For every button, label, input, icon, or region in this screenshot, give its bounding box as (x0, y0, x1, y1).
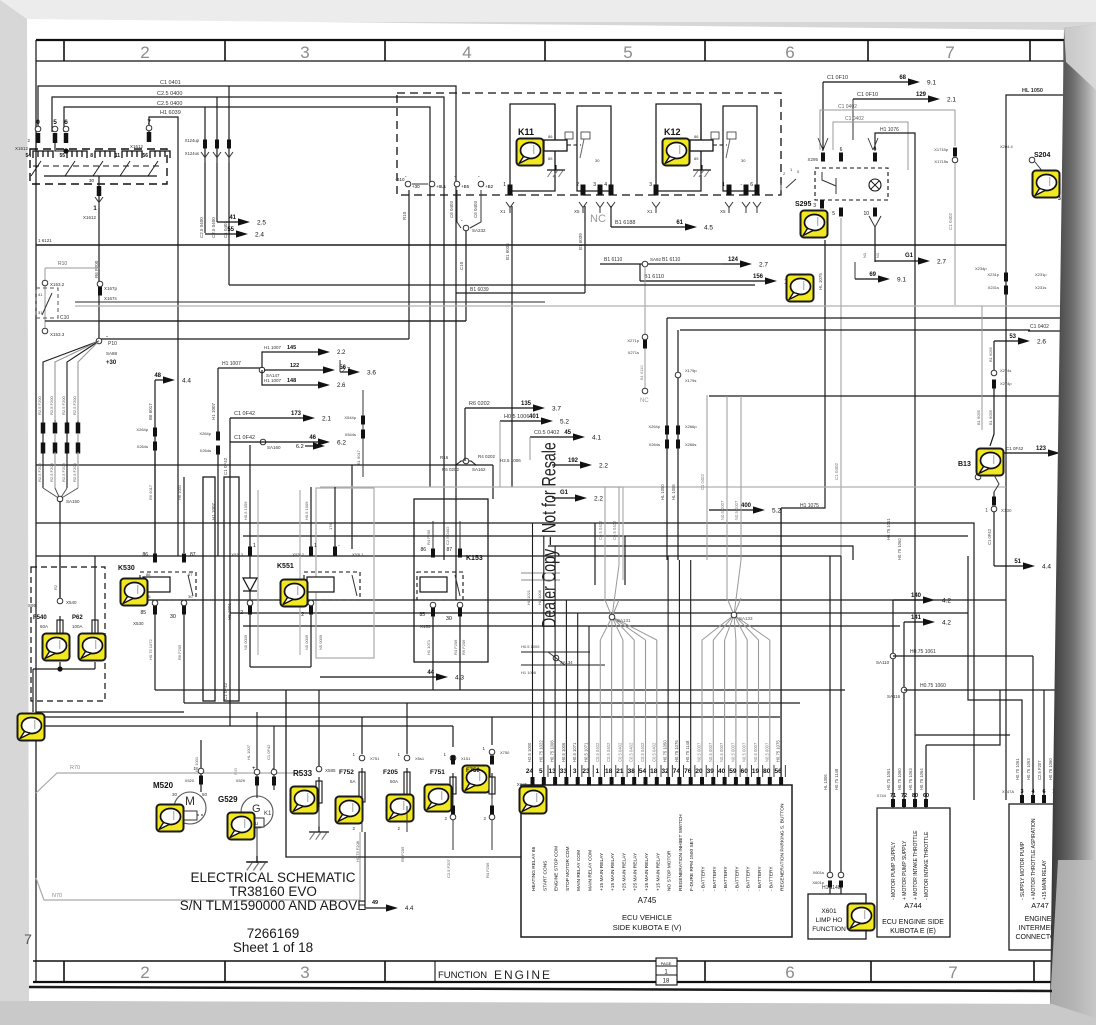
callout K551 (281, 580, 308, 607)
svg-text:2.1: 2.1 (947, 97, 956, 104)
svg-text:X153.3: X153.3 (50, 332, 65, 337)
svg-text:X750: X750 (500, 750, 510, 755)
arrow 51 to 4.4 (994, 565, 1024, 567)
arrow G1 to 2.2 (552, 497, 576, 499)
arrow 53 to 2.6 (994, 340, 1019, 342)
svg-text:X274p: X274p (1000, 381, 1012, 386)
wire C10 to SA232 (100, 320, 466, 322)
wire B13 down (994, 475, 999, 492)
wires K153 top (432, 521, 434, 549)
diode (249, 556, 251, 578)
svg-text:C1 0402: C1 0402 (834, 462, 839, 480)
svg-text:41: 41 (38, 292, 43, 297)
ground G529 (256, 828, 258, 863)
wire C1 0402 gray b (833, 122, 908, 170)
svg-text:C2.5 F207: C2.5 F207 (1037, 760, 1042, 780)
svg-text:N0.5 0007: N0.5 0007 (753, 742, 758, 762)
callout left edge (18, 714, 45, 741)
svg-text:4.1: 4.1 (592, 435, 601, 442)
svg-text:R6 F200: R6 F200 (94, 260, 99, 278)
svg-text:+8L1: +8L1 (436, 184, 447, 189)
svg-text:R2.5 F200: R2.5 F200 (61, 463, 66, 482)
svg-text:R533: R533 (293, 769, 313, 778)
wire bus y690 (155, 689, 845, 691)
connector comb 55 (67, 151, 87, 158)
wire X1612 down (98, 176, 100, 341)
svg-text:C2.5 0400: C2.5 0400 (211, 217, 216, 238)
svg-text:R5 6017: R5 6017 (148, 484, 153, 500)
wire B1 6110 upper (600, 263, 722, 265)
svg-text:H0.5 1006: H0.5 1006 (504, 414, 529, 420)
connector comb 8 (95, 151, 115, 158)
relay K11 contact (580, 139, 584, 158)
svg-text:122: 122 (290, 363, 299, 369)
callout F751 (425, 785, 452, 812)
svg-text:K11: K11 (518, 127, 534, 137)
svg-text:X540: X540 (66, 600, 77, 605)
svg-text:X529: X529 (236, 778, 246, 783)
svg-text:3: 3 (1058, 196, 1061, 202)
svg-text:0: 0 (36, 119, 40, 126)
svg-text:MAIN RELAY COM: MAIN RELAY COM (588, 850, 594, 891)
svg-text:H0.75 1006: H0.75 1006 (550, 740, 555, 762)
svg-text:X1612: X1612 (15, 146, 29, 151)
svg-text:1: 1 (985, 508, 988, 514)
wire H6 1001 to M520 (200, 740, 202, 792)
svg-text:86: 86 (146, 572, 151, 577)
svg-text:+15 MAIN RELAY: +15 MAIN RELAY (655, 852, 661, 891)
svg-text:R2.5 F200: R2.5 F200 (49, 396, 54, 415)
svg-text:FUNCTION: FUNCTION (812, 926, 846, 933)
svg-text:X747A: X747A (1002, 789, 1014, 794)
svg-text:33: 33 (560, 768, 568, 775)
svg-text:48: 48 (154, 373, 161, 379)
svg-text:X231p: X231p (987, 272, 999, 277)
svg-text:30: 30 (170, 614, 176, 620)
wire X540 (59, 556, 61, 598)
pin X1612-1 (97, 186, 102, 196)
splice SA110 (890, 653, 896, 659)
svg-text:31: 31 (38, 310, 43, 315)
svg-text:100A: 100A (72, 624, 83, 629)
svg-text:SA92: SA92 (650, 257, 662, 262)
svg-text:B1 6055: B1 6055 (976, 409, 981, 425)
svg-text:ENGINE STOP COM: ENGINE STOP COM (554, 846, 560, 891)
svg-text:R16: R16 (440, 455, 449, 460)
svg-text:ECU VEHICLE: ECU VEHICLE (622, 913, 672, 922)
wire H1 1007 drop (217, 368, 219, 432)
wire drop C1 0401 c (228, 86, 230, 285)
svg-text:N5 0009: N5 0009 (243, 634, 248, 650)
svg-text:H0.75 1063: H0.75 1063 (908, 768, 913, 790)
ECU A745 box (521, 785, 792, 937)
svg-text:18: 18 (650, 768, 658, 775)
wire bus y613 (230, 612, 968, 614)
svg-text:30: 30 (446, 616, 452, 622)
wire C1 0402 gray mid (706, 395, 708, 560)
svg-text:5.2: 5.2 (560, 419, 569, 426)
svg-text:X530: X530 (133, 621, 144, 626)
tall box left pair (203, 477, 215, 701)
svg-text:N5 0009: N5 0009 (304, 634, 309, 650)
svg-text:C2.5 F207: C2.5 F207 (446, 859, 451, 878)
svg-text:X204.4: X204.4 (1000, 144, 1013, 149)
ground R533 (318, 807, 320, 832)
svg-text:B1 6055: B1 6055 (988, 409, 993, 425)
svg-text:X295: X295 (807, 157, 818, 162)
function title (434, 961, 436, 982)
wire SA88 feed (99, 338, 409, 340)
svg-text:129: 129 (916, 92, 927, 98)
svg-text:6: 6 (840, 147, 843, 153)
svg-text:H0.75 1061: H0.75 1061 (886, 768, 891, 790)
svg-text:R2.5 F200: R2.5 F200 (61, 396, 66, 415)
svg-text:REGENERATION INHIBIT SWITCH: REGENERATION INHIBIT SWITCH (678, 814, 684, 891)
svg-text:18: 18 (663, 979, 670, 985)
svg-text:NC: NC (640, 398, 649, 404)
svg-text:30: 30 (89, 178, 95, 183)
svg-text:X231s: X231s (988, 285, 999, 290)
column ticks bottom (63, 961, 65, 982)
splice fan SA133 (702, 560, 770, 640)
connector comb 54 (33, 151, 53, 158)
svg-text:X179s: X179s (685, 378, 696, 383)
relay K12 frame (656, 104, 701, 191)
svg-text:23: 23 (582, 768, 590, 775)
wire B1 6055 (993, 341, 995, 370)
svg-text:HL 1006: HL 1006 (671, 484, 676, 500)
svg-text:R6 F206: R6 F206 (461, 639, 466, 655)
svg-text:39: 39 (707, 768, 715, 775)
wire gray B1 6055 (981, 306, 983, 430)
wires A744 (892, 600, 894, 799)
svg-text:H0.75 1061: H0.75 1061 (1015, 758, 1020, 780)
splice SA232 (463, 225, 469, 231)
svg-text:C1 0402: C1 0402 (700, 473, 705, 490)
svg-text:X124up: X124up (185, 138, 200, 143)
column ticks top (63, 40, 65, 61)
wire left drop (32, 669, 34, 712)
svg-text:C10: C10 (459, 261, 464, 270)
svg-text:X264p: X264p (648, 424, 660, 429)
wires HL1050 HL1006 drop (666, 318, 668, 560)
svg-text:X5s1: X5s1 (415, 756, 425, 761)
svg-text:R4 F206: R4 F206 (453, 639, 458, 655)
bottom scan shadow (0, 1001, 1096, 1025)
frame right border (1063, 40, 1065, 982)
arrow 400 to 5.2 (709, 509, 754, 511)
callout A745 (520, 787, 547, 814)
arrow 56 to 3.6 (340, 371, 349, 373)
svg-text:2: 2 (140, 963, 149, 982)
svg-text:R2.5 F200: R2.5 F200 (72, 396, 77, 415)
svg-text:HL 1006: HL 1006 (823, 774, 828, 790)
svg-text:R4 F206: R4 F206 (485, 862, 490, 878)
svg-text:H5 1001: H5 1001 (227, 602, 232, 620)
svg-text:400: 400 (741, 503, 752, 509)
svg-text:- BATTERY: - BATTERY (757, 866, 763, 891)
svg-text:B1 6188: B1 6188 (615, 220, 636, 226)
wire bus y556 (36, 555, 841, 557)
pins K551 bottom (248, 606, 252, 615)
splice SA147 arrows (218, 367, 262, 369)
svg-text:ENGINE: ENGINE (494, 968, 552, 982)
svg-text:-B10: -B10 (395, 177, 405, 182)
svg-text:X153.2: X153.2 (50, 282, 65, 287)
wire drop C2.5 0400 a (204, 107, 206, 233)
connector block dashed box (30, 149, 167, 184)
wire HL 1075 long (781, 240, 825, 508)
svg-text:C1 0F42: C1 0F42 (266, 744, 271, 760)
svg-text:2.1: 2.1 (322, 416, 331, 423)
svg-text:6: 6 (64, 119, 68, 126)
wire F750 down (491, 794, 493, 850)
svg-text:1: 1 (314, 543, 317, 549)
wire bus y600 (137, 599, 1006, 601)
wire bus y285 (229, 284, 755, 286)
splice SA162 (456, 461, 476, 465)
svg-text:4.2: 4.2 (942, 598, 951, 605)
svg-text:SA133: SA133 (739, 616, 753, 621)
splice fan SA131 (600, 565, 657, 640)
svg-text:30: 30 (741, 158, 746, 163)
svg-text:2.2: 2.2 (337, 350, 346, 356)
wire bus y726 (36, 725, 453, 727)
svg-text:H0.75 F208: H0.75 F208 (355, 840, 360, 862)
svg-text:2.6: 2.6 (337, 383, 346, 389)
callout K11 (517, 139, 544, 166)
svg-text:40: 40 (718, 768, 726, 775)
svg-text:+15 MAIN RELAY: +15 MAIN RELAY (644, 852, 650, 891)
svg-text:H1 1007: H1 1007 (264, 345, 282, 350)
pins X271 (643, 340, 647, 349)
svg-text:R10: R10 (58, 261, 67, 267)
wire bus y465 (36, 464, 493, 466)
wire F752 down (361, 806, 363, 832)
svg-text:G1: G1 (905, 253, 914, 259)
svg-text:X274s: X274s (1000, 368, 1011, 373)
svg-text:HL 1050: HL 1050 (1022, 88, 1043, 94)
svg-text:45: 45 (564, 430, 571, 436)
svg-text:+25 MAIN RELAY: +25 MAIN RELAY (633, 852, 639, 891)
svg-text:-: - (106, 334, 108, 340)
svg-text:R2: R2 (53, 584, 58, 590)
svg-text:192: 192 (568, 458, 579, 464)
svg-text:H6 1001: H6 1001 (177, 484, 182, 500)
svg-text:3: 3 (813, 203, 816, 209)
svg-text:X130: X130 (1001, 508, 1012, 513)
svg-text:56: 56 (142, 153, 148, 159)
svg-text:P62: P62 (72, 615, 83, 621)
svg-text:ELECTRICAL SCHEMATIC: ELECTRICAL SCHEMATIC (190, 870, 355, 885)
svg-text:H2.5 1000: H2.5 1000 (527, 742, 532, 762)
arrow 44 to 4.3 (320, 676, 437, 678)
wires K551 verticals (249, 445, 251, 547)
junction (55, 143, 66, 151)
wire bus y302 (75, 301, 545, 303)
svg-text:B1 6017: B1 6017 (356, 449, 361, 465)
svg-text:KUBOTA E (E): KUBOTA E (E) (890, 928, 936, 935)
svg-text:H0.75 1072: H0.75 1072 (148, 639, 153, 660)
fuse F750 (463, 766, 490, 793)
svg-text:54: 54 (639, 768, 647, 775)
svg-text:F205: F205 (383, 769, 398, 776)
svg-text:R2.5 F200: R2.5 F200 (72, 463, 77, 482)
gray riser C05 0402 (604, 487, 606, 565)
svg-text:54: 54 (25, 153, 31, 159)
ECU A747 box (1009, 804, 1066, 950)
svg-text:3: 3 (300, 963, 309, 982)
connector internal bus (44, 175, 157, 177)
callout P62 (79, 634, 106, 661)
wire F751 down (452, 794, 454, 850)
svg-text:NC: NC (590, 213, 606, 225)
svg-text:R6 F205: R6 F205 (400, 846, 405, 862)
pins X231 (1004, 273, 1008, 282)
svg-text:SA116: SA116 (887, 694, 901, 699)
svg-text:ENGINE: ENGINE (1025, 916, 1052, 923)
svg-text:85: 85 (140, 610, 146, 616)
wire H1 1076 (875, 133, 915, 735)
svg-text:B1 6039: B1 6039 (578, 233, 583, 250)
wire bus y546 (548, 546, 853, 560)
svg-text:C1 0F10: C1 0F10 (827, 75, 848, 81)
svg-text:H1 1075: H1 1075 (800, 503, 819, 509)
callout F205 (387, 795, 414, 822)
svg-text:X601s: X601s (813, 870, 824, 875)
svg-text:X53L2: X53L2 (292, 552, 304, 557)
svg-text:H0.75 1061: H0.75 1061 (910, 649, 936, 655)
svg-text:1: 1 (253, 543, 256, 549)
svg-text:H0.75 1050: H0.75 1050 (663, 740, 668, 762)
svg-text:H0.75 1063: H0.75 1063 (1026, 758, 1031, 780)
svg-text:TR38160 EVO: TR38160 EVO (229, 884, 317, 899)
splice SA92 (642, 261, 648, 267)
svg-text:X585: X585 (325, 768, 336, 773)
tall box K153 (414, 499, 488, 662)
svg-text:A747: A747 (1031, 901, 1049, 910)
svg-text:2.2: 2.2 (594, 496, 603, 503)
svg-text:R6 F205: R6 F205 (177, 644, 182, 660)
svg-text:C0.5 0402: C0.5 0402 (617, 742, 622, 762)
sheet index box (656, 958, 677, 985)
pins X179 (675, 372, 681, 378)
svg-text:C0.5 0402: C0.5 0402 (640, 742, 645, 762)
svg-text:X1715p: X1715p (934, 147, 949, 152)
svg-text:- MOTOR INTAKE THROTTLE: - MOTOR INTAKE THROTTLE (924, 831, 930, 900)
svg-text:H0.75 1148: H0.75 1148 (685, 740, 690, 762)
wire to F540 (59, 501, 61, 598)
arrow 192 to 2.2 (552, 464, 581, 466)
svg-text:5: 5 (623, 43, 632, 62)
svg-text:124: 124 (728, 257, 739, 263)
svg-text:X1: X1 (647, 209, 653, 214)
svg-text:86: 86 (420, 547, 426, 553)
svg-text:C2.5 0400: C2.5 0400 (157, 101, 182, 107)
wire to pin56 (780, 508, 782, 778)
relay K12 contact (726, 139, 730, 158)
svg-text:18: 18 (605, 768, 613, 775)
callout M520 (157, 805, 184, 832)
wire K11 coil to ground (554, 151, 556, 167)
svg-text:R4 0202: R4 0202 (478, 454, 496, 459)
gray box mid (560, 487, 623, 580)
relay R10 contact (45, 267, 100, 269)
fuse block dashed box (31, 567, 105, 701)
svg-text:X179p: X179p (685, 368, 697, 373)
svg-text:5.2: 5.2 (772, 508, 781, 515)
svg-text:+ MOTOR PUMP SUPPLY: + MOTOR PUMP SUPPLY (902, 840, 908, 900)
arrow 48 to 4.4 (155, 379, 164, 381)
wire corner box (286, 690, 521, 857)
pins X544 (362, 390, 364, 477)
svg-text:X264s: X264s (649, 442, 660, 447)
pins K551 (248, 547, 252, 556)
frame left border (35, 40, 37, 982)
svg-text:32: 32 (661, 768, 669, 775)
wire bus y717 (36, 716, 780, 718)
pins X295 (821, 153, 825, 162)
wire arrow 49 to 4.4 (365, 832, 386, 908)
svg-text:59: 59 (729, 768, 737, 775)
svg-text:- BATTERY: - BATTERY (712, 866, 718, 891)
svg-text:X520: X520 (185, 778, 195, 783)
terminal NC (642, 388, 648, 394)
pins X1715 (953, 148, 957, 157)
funnel entries (818, 138, 823, 150)
connector comb 56 (150, 151, 170, 158)
wires A747 (968, 556, 1022, 795)
wire K551 bottom join (250, 666, 311, 668)
svg-text:X1612: X1612 (130, 144, 144, 149)
svg-text:H1 6039: H1 6039 (160, 110, 181, 116)
svg-text:3.6: 3.6 (367, 370, 376, 377)
svg-text:K1: K1 (264, 811, 272, 817)
svg-text:STOP MOTOR COM: STOP MOTOR COM (565, 846, 571, 891)
pins K530 (153, 554, 157, 563)
wire C1 0401 bus (38, 86, 456, 600)
wire F540 bottom (59, 662, 61, 669)
svg-text:6.2: 6.2 (296, 444, 304, 450)
wire drop C2.5 0400 b (216, 97, 218, 222)
svg-text:+15 MAIN RELAY: +15 MAIN RELAY (610, 852, 616, 891)
arrow G1 to 2.7 (875, 260, 919, 262)
arrow B1 6188 to 4.5 (611, 226, 686, 228)
svg-text:H0.75 1060: H0.75 1060 (920, 683, 946, 689)
svg-text:86: 86 (694, 134, 699, 139)
svg-text:C0.5 0402: C0.5 0402 (534, 430, 559, 436)
svg-text:2.6: 2.6 (1037, 339, 1046, 346)
svg-text:X744: X744 (877, 793, 887, 798)
wire bus y626 (243, 625, 900, 627)
callout R533 (291, 787, 318, 814)
svg-text:C1 0F10: C1 0F10 (857, 92, 878, 98)
svg-text:X124us: X124us (185, 151, 199, 156)
splice SA88 (96, 338, 102, 344)
svg-text:3: 3 (300, 43, 309, 62)
svg-text:X53L3: X53L3 (231, 552, 243, 557)
wire C1 0402 gray a (820, 110, 955, 150)
svg-text:1: 1 (595, 768, 599, 775)
svg-text:START CONS: START CONS (542, 861, 548, 891)
wires K153 bottom (432, 616, 434, 690)
svg-text:LIMP HO: LIMP HO (816, 917, 843, 924)
svg-text:S95: S95 (28, 603, 37, 608)
svg-text:148: 148 (287, 378, 296, 384)
svg-text:R2.5 F200: R2.5 F200 (49, 463, 54, 482)
svg-text:M: M (185, 794, 195, 808)
svg-text:50A: 50A (390, 779, 398, 784)
